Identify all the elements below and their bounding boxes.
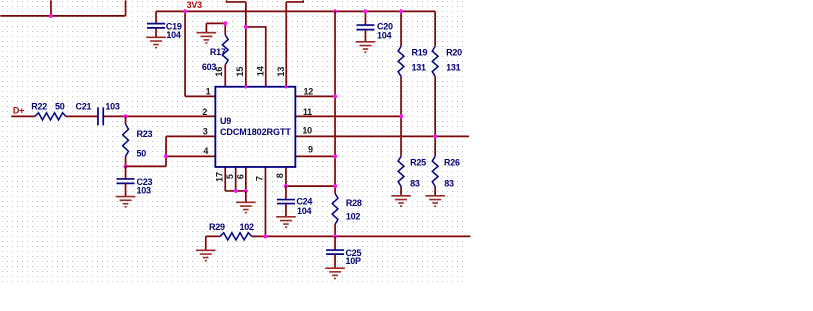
wire C20 gnd stub [364,30,366,42]
svg-text:104: 104 [166,30,181,40]
junction pin 12 [333,94,337,98]
ground R29 [196,250,216,260]
junction pin 7/R29 [263,234,267,238]
wire gnd stub pins [245,191,247,202]
wire top-left vertical stub [50,0,52,16]
ground R25 [391,196,411,206]
svg-text:14: 14 [256,66,266,76]
junction pin 8/C24 [284,184,288,188]
svg-text:1: 1 [206,87,211,97]
svg-text:3V3: 3V3 [187,0,203,10]
resistor R20 [432,46,438,76]
wire R17 gnd stub [205,23,207,32]
svg-text:83: 83 [444,178,454,188]
junction 3V3/R28 column [333,9,337,13]
wire 3V3 drop to pin1 [184,11,186,96]
wire top-left riser [125,0,127,16]
junction top-left [49,14,53,18]
wire C24 gnd stub [285,204,287,217]
ground C24 [276,217,296,227]
svg-text:7: 7 [254,176,264,181]
wire R29 gnd stub [205,236,207,250]
svg-text:R17: R17 [210,47,226,57]
ground C25 [325,268,345,278]
svg-text:R25: R25 [410,158,426,168]
junction R28/C25 [333,234,337,238]
op-amp U9 body CDCM1802RGTT [215,87,295,167]
svg-text:C24: C24 [296,197,312,207]
wire pins 17-5-6 bus [225,190,246,192]
capacitor C24 [277,200,295,204]
wire pin15 top exit [227,0,246,2]
wire pin 13 vertical [285,2,287,87]
resistor R28 [332,193,338,224]
wire pin 1 [185,95,215,97]
wire pin 4 [166,155,215,157]
capacitor C19 [147,24,165,28]
svg-text:U9: U9 [220,116,231,126]
svg-text:16: 16 [214,67,224,77]
wire bottom rail [252,235,471,237]
svg-text:10P: 10P [345,256,361,266]
svg-text:9: 9 [308,145,313,155]
wire R23 top lead [125,116,127,124]
wire 3V3 rail [156,10,435,12]
svg-text:50: 50 [55,102,65,112]
svg-text:50: 50 [137,148,147,158]
svg-text:131: 131 [412,62,427,72]
svg-text:8: 8 [275,173,285,178]
svg-text:103: 103 [137,185,152,195]
junction R17 top [223,21,227,25]
wire C23 gnd stub [125,183,127,196]
wire pin 16 / R17 bottom [224,65,226,87]
svg-text:2: 2 [202,107,207,117]
wire pin 9 [295,155,335,157]
junction 3V3/pin1 drop [183,9,187,13]
svg-text:102: 102 [346,211,361,221]
capacitor C21 [98,107,103,125]
dot pin13 entry [285,86,288,89]
wire pin 12 [295,95,335,97]
ground pins 17-5-6 [236,202,256,212]
svg-text:102: 102 [240,222,255,232]
junction C21/R23 [123,114,127,118]
svg-text:5: 5 [225,174,235,179]
wire C21 to pin 2 [103,115,215,117]
wire C25 gnd stub [334,254,336,268]
junction R23/C23 [123,164,127,168]
capacitor C23 [117,179,135,183]
wire pin 6 stub [245,167,247,191]
wire R26 gnd lead [434,186,436,196]
wire gnd to R17 [206,22,225,24]
junction pin8 branch/R28 [333,184,337,188]
wire pin13 top exit [286,0,303,2]
junction pin 5 [234,189,238,193]
resistor R29 [220,233,252,240]
ground C23 [116,197,136,207]
resistor R19 [398,46,404,76]
wire R20 top lead [434,11,436,46]
resistor R25 [398,156,404,186]
wire C24 top lead [285,186,287,199]
junction pin 6 [244,189,248,193]
junction pin 11/R19 [399,114,403,118]
wire R23 bottom to riser [126,165,167,167]
wire R20-R26 vertical [434,76,436,156]
wire C19 gnd stub [155,28,157,37]
wire R19-R25 vertical [400,76,402,156]
wire R17 top lead [224,23,226,34]
wire pin 8 branch [286,185,335,187]
svg-text:6: 6 [236,174,246,179]
svg-text:R28: R28 [346,198,362,208]
svg-text:CDCM1802RGTT: CDCM1802RGTT [220,127,291,137]
wire pin 10 [295,135,469,137]
junction 3V3/R19 [399,9,403,13]
svg-text:3: 3 [203,126,208,136]
wire R28 bottom lead [334,224,336,236]
svg-text:10: 10 [302,125,312,135]
wire pin 17 stub [224,167,226,191]
wire R22 to C21 [66,115,98,117]
junction pin 9 [333,154,337,158]
svg-text:R23: R23 [137,129,153,139]
svg-text:C21: C21 [75,102,91,112]
grid dots background [0,0,464,285]
wire R28 column vertical [334,11,336,193]
svg-text:131: 131 [446,62,461,72]
svg-text:17: 17 [215,172,225,182]
resistor R17 [222,35,228,65]
wire top-left horizontal [0,15,125,17]
wire gnd to R29 [206,235,220,237]
ground C19 [146,37,166,47]
svg-text:4: 4 [203,146,208,156]
wire C25 top lead [334,236,336,250]
wire pin 8 stub [285,167,287,186]
svg-text:13: 13 [276,67,286,77]
capacitor C20 [356,25,374,30]
junction pin 10/R20 [433,134,437,138]
wire pin 3 [166,135,215,137]
wire pin 14 [246,27,266,87]
wire C19 top lead [155,11,157,23]
resistor R23 [123,124,129,156]
svg-text:R22: R22 [31,102,47,112]
ground R17 [197,33,217,43]
wire C23 top lead [125,166,127,179]
junction 3V3/C20 [363,9,367,13]
wire R19 top lead [400,11,402,46]
wire R25 gnd lead [400,186,402,196]
wire pin 15 vertical [245,2,247,87]
wire C20 top lead [364,11,366,25]
svg-text:R29: R29 [209,222,225,232]
svg-text:R20: R20 [446,47,462,57]
wire D+ to R22 [11,115,35,117]
svg-text:104: 104 [297,206,312,216]
svg-text:R19: R19 [412,47,428,57]
svg-text:R26: R26 [444,158,460,168]
wire R23 bottom lead [125,156,127,166]
wire riser pin3/pin4 [165,136,167,166]
wire pin 5 stub [235,167,237,191]
svg-text:D+: D+ [13,105,24,115]
ground R26 [425,196,445,206]
svg-text:83: 83 [410,178,420,188]
resistor R22 [35,113,66,120]
svg-text:11: 11 [303,107,312,117]
wire pin 11 [295,115,401,117]
svg-text:104: 104 [377,31,392,41]
svg-text:15: 15 [235,67,245,77]
junction pin 4 tee [164,154,168,158]
junction pin14/pin15 [244,25,248,29]
svg-text:12: 12 [304,87,314,97]
wire pin 7 vertical [264,167,266,237]
capacitor C25 [326,250,344,254]
resistor R26 [432,156,438,186]
ground C20 [356,42,376,52]
svg-text:103: 103 [105,102,120,112]
dot pin15 entry [244,86,247,89]
